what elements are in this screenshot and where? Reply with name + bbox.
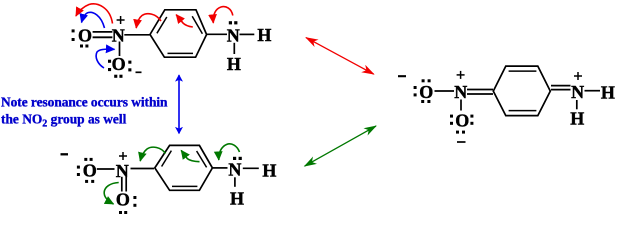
plus charge on N5 bbox=[457, 71, 465, 79]
curved arrow green B2 (inside ring) bbox=[181, 150, 199, 161]
bond ringB-N4 bbox=[213, 167, 228, 169]
lone pair dots below O1 bbox=[80, 45, 88, 48]
svg-text:O: O bbox=[116, 190, 130, 210]
plus charge on N6 bbox=[574, 72, 582, 80]
ring B inner double bond upper-left bbox=[162, 151, 172, 167]
svg-text:N: N bbox=[454, 82, 467, 102]
svg-text:O: O bbox=[83, 160, 97, 180]
lone pair dots below O4 bbox=[119, 211, 127, 214]
lone pair dots below O2 bbox=[114, 75, 122, 78]
bond N6-H5 bbox=[585, 90, 601, 92]
svg-text:O: O bbox=[455, 110, 469, 130]
lone pair colon left of O2 bbox=[108, 60, 111, 71]
bond N2-H1 bbox=[240, 33, 255, 35]
svg-text:H: H bbox=[601, 82, 615, 102]
bond N3-ringB bbox=[131, 168, 155, 170]
lone pair dots above N4 bbox=[233, 157, 242, 160]
lone pair colon right of O2 bbox=[128, 61, 131, 72]
ring B inner double bond bottom bbox=[172, 185, 197, 187]
svg-text:O: O bbox=[78, 25, 92, 45]
minus charge on O6 bbox=[457, 141, 466, 143]
curved arrow blue A2 (O2 to N1 bond) bbox=[96, 49, 114, 68]
svg-text:N: N bbox=[227, 25, 240, 45]
svg-text:H: H bbox=[230, 188, 244, 208]
lone pair colon left of O6 bbox=[450, 115, 453, 125]
curved arrow red A1 (N+ to O1) bbox=[76, 4, 113, 24]
svg-text:N: N bbox=[571, 82, 584, 102]
double bond O1=N1 bbox=[93, 32, 113, 37]
svg-text:the NO2 group as well: the NO2 group as well bbox=[1, 112, 127, 130]
svg-text:H: H bbox=[227, 54, 241, 74]
svg-text:N: N bbox=[228, 159, 241, 179]
curved arrow red A2 (ring to C-N bond) bbox=[136, 14, 161, 28]
curved arrow green B1 (ring to C-N bond) bbox=[140, 147, 165, 161]
svg-text:N: N bbox=[112, 26, 125, 46]
bond N1-ringA bbox=[124, 34, 149, 36]
svg-text:O: O bbox=[112, 54, 126, 74]
svg-text:H: H bbox=[570, 108, 584, 128]
svg-text:H: H bbox=[262, 161, 276, 181]
benzene ring C (quinoid) bbox=[493, 66, 550, 116]
ring A inner double bond upper-left bbox=[157, 17, 167, 33]
lone pair colon left of O3 bbox=[77, 166, 80, 176]
curved arrow red A4 (loop over N2 lone pair) bbox=[213, 7, 233, 23]
bond O3-N3 bbox=[97, 168, 115, 170]
lone pair colon left of O5 bbox=[414, 86, 417, 96]
lone pair dots below O5 bbox=[421, 100, 430, 103]
blue vertical double-headed resonance arrow bbox=[178, 75, 180, 133]
lone pair dots above N2 bbox=[229, 21, 238, 24]
bond N5-O6 bbox=[460, 100, 462, 111]
ring C inner double bond bottom bbox=[509, 110, 537, 112]
minus charge on O5 bbox=[398, 75, 406, 77]
curved arrow red A3 (inside ring) bbox=[176, 15, 193, 27]
bond O5-N5 bbox=[435, 90, 455, 92]
plus charge on N1 bbox=[117, 16, 125, 24]
curved arrow green B4 (N3=O4 to O4) bbox=[104, 183, 119, 205]
lone pair colon right of O6 bbox=[470, 115, 473, 125]
bond N6-H6 bbox=[576, 100, 578, 109]
curved arrow blue A1 bbox=[82, 12, 105, 28]
bond ringA-N2 bbox=[207, 33, 227, 35]
lone pair dots below O3 bbox=[85, 180, 94, 183]
double bond ringC=N6 bbox=[551, 86, 571, 90]
lone pair colon right of O4 bbox=[133, 196, 136, 207]
bond N1-O2 bbox=[119, 42, 121, 57]
ring B inner double bond upper-right bbox=[197, 151, 207, 167]
curved arrow green B3 (loop over N4 lone pair) bbox=[219, 144, 240, 160]
lone pair dots below O6 bbox=[456, 131, 465, 134]
lone pair dots above O5 bbox=[422, 79, 431, 82]
lone pair dots above O3 bbox=[84, 158, 92, 161]
ring A inner double bond bottom bbox=[168, 52, 194, 54]
plus charge on N3 bbox=[119, 152, 127, 160]
svg-text:O: O bbox=[419, 82, 433, 102]
benzene ring A bbox=[150, 10, 207, 57]
ring A inner double bond upper-right bbox=[192, 16, 202, 34]
red diagonal double-headed resonance arrow bbox=[306, 38, 374, 75]
bond N2-H2 bbox=[233, 43, 235, 54]
benzene ring B bbox=[155, 145, 213, 190]
double bond N5=ringC bbox=[467, 90, 493, 95]
double bond N3=O4 bbox=[122, 177, 126, 192]
green diagonal double-headed resonance arrow bbox=[305, 126, 376, 166]
lone pair colon left of O1 bbox=[72, 29, 75, 41]
minus charge on O2 bbox=[136, 71, 142, 73]
bond N4-H4 bbox=[234, 177, 236, 187]
minus charge on O3 bbox=[61, 153, 69, 155]
svg-text:H: H bbox=[257, 25, 271, 45]
svg-text:Note resonance occurs within: Note resonance occurs within bbox=[1, 95, 168, 110]
bond N4-H3 bbox=[243, 167, 259, 169]
ring C inner double bond top bbox=[509, 70, 537, 72]
